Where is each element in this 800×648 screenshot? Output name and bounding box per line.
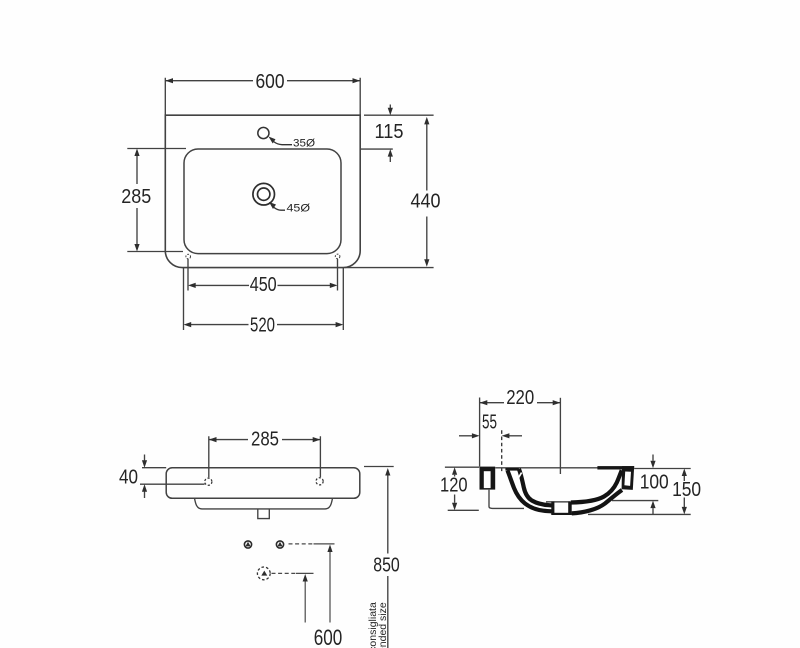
svg-text:520: 520: [250, 315, 275, 337]
dimension 600 (top): [165, 78, 360, 115]
dimension 120: [445, 467, 479, 510]
front view under-basin: [195, 498, 333, 509]
svg-text:440: 440: [411, 191, 441, 213]
section extension lines: [480, 398, 561, 475]
svg-text:35Ø: 35Ø: [293, 138, 315, 150]
rim block: [622, 466, 635, 490]
supply leader line: [289, 544, 335, 623]
dimension 150: [683, 476, 685, 508]
fixing hole left (top view): [186, 254, 191, 259]
front view drain tab: [258, 510, 270, 519]
outer silhouette thin: [489, 490, 524, 509]
faucet hole 35mm: [258, 127, 269, 138]
centerline faucet (section, dashed): [501, 430, 503, 471]
leader label 45Ø: [269, 202, 310, 215]
dimension 40 (front view): [140, 455, 205, 499]
supply symbol right: [276, 541, 283, 548]
dimension 220: [480, 402, 561, 404]
rim top bar: [597, 466, 634, 469]
supply symbol left: [244, 541, 251, 548]
dimension 850 (front view): [364, 467, 394, 648]
rim white inset: [624, 472, 631, 486]
svg-text:600: 600: [314, 625, 343, 648]
basin outer wall (right): [572, 490, 622, 513]
svg-text:150: 150: [672, 479, 701, 501]
top view inner basin: [184, 149, 341, 254]
overflow notch: [517, 473, 522, 481]
dimension 285 (front view): [209, 436, 321, 477]
deck segment: [505, 468, 519, 471]
svg-text:55: 55: [482, 412, 497, 434]
svg-text:recommended size: recommended size: [377, 602, 389, 648]
svg-text:600: 600: [256, 71, 285, 93]
dimension 100: [652, 455, 654, 515]
dimension 115 (right top): [360, 105, 433, 163]
svg-text:45Ø: 45Ø: [287, 203, 311, 215]
svg-text:120: 120: [440, 475, 468, 497]
svg-text:100: 100: [640, 472, 669, 494]
leader label 35Ø: [269, 137, 316, 150]
drain leader line: [272, 573, 314, 622]
svg-text:220: 220: [506, 387, 534, 409]
top view outer body: [165, 115, 360, 267]
svg-text:850: 850: [373, 554, 400, 576]
svg-text:285: 285: [121, 186, 151, 208]
front view body: [166, 468, 360, 499]
svg-text:40: 40: [119, 466, 138, 488]
faucet hole right (front view): [316, 478, 323, 485]
basin inner wall (right): [571, 470, 622, 502]
deck thin line across hole: [495, 467, 597, 469]
svg-text:115: 115: [375, 121, 404, 143]
wall bracket: [480, 467, 496, 490]
faucet hole left (front view): [205, 478, 212, 485]
basin outer wall (left): [508, 471, 552, 512]
drain hole 45mm: [253, 183, 275, 205]
fixing hole right (top view): [335, 254, 340, 259]
drain box: [546, 501, 570, 503]
svg-text:450: 450: [250, 274, 277, 296]
dimension 285 (left, top view): [127, 149, 186, 252]
svg-text:285: 285: [251, 429, 279, 451]
drain symbol (dashed circle): [257, 567, 270, 580]
section right extension lines: [588, 469, 691, 515]
dimension 440 (right): [345, 121, 434, 268]
dimension 55: [459, 435, 522, 437]
basin inner wall (left): [519, 469, 553, 506]
dimension 450 (bottom of top view): [188, 259, 338, 291]
dimension 520 (bottom of top view): [184, 268, 344, 330]
